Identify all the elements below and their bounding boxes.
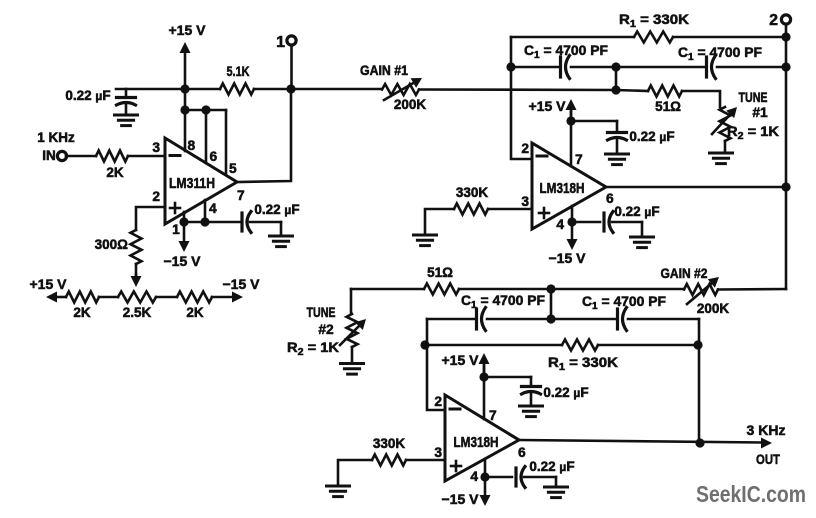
svg-text:2K: 2K	[186, 305, 204, 320]
svg-text:330K: 330K	[373, 436, 406, 451]
svg-text:SeekIC.com: SeekIC.com	[696, 481, 806, 507]
svg-text:+15 V: +15 V	[442, 352, 480, 368]
svg-text:4: 4	[556, 217, 564, 232]
svg-text:GAIN #1: GAIN #1	[360, 63, 408, 78]
svg-text:−15 V: −15 V	[549, 250, 587, 266]
svg-text:4: 4	[209, 201, 217, 216]
svg-text:51Ω: 51Ω	[655, 99, 681, 114]
svg-text:2.5K: 2.5K	[123, 305, 152, 320]
svg-text:2: 2	[521, 141, 529, 156]
svg-text:0.22 µF: 0.22 µF	[614, 204, 659, 219]
svg-text:5: 5	[229, 161, 237, 176]
svg-text:1: 1	[276, 34, 285, 51]
svg-text:2K: 2K	[73, 305, 91, 320]
svg-text:GAIN #2: GAIN #2	[661, 266, 708, 281]
svg-text:2: 2	[152, 189, 160, 204]
svg-text:5.1K: 5.1K	[227, 64, 250, 79]
svg-text:−15 V: −15 V	[442, 491, 480, 507]
svg-text:2: 2	[434, 394, 442, 409]
svg-text:+15 V: +15 V	[30, 276, 68, 292]
svg-text:6: 6	[518, 445, 526, 460]
svg-text:0.22 µF: 0.22 µF	[629, 129, 674, 144]
svg-text:3: 3	[521, 194, 529, 209]
svg-text:0.22 µF: 0.22 µF	[65, 88, 110, 103]
svg-text:+15 V: +15 V	[169, 22, 207, 38]
svg-text:−15 V: −15 V	[223, 276, 261, 292]
svg-text:1 KHz: 1 KHz	[37, 130, 75, 145]
svg-text:−15 V: −15 V	[164, 253, 202, 269]
svg-text:3 KHz: 3 KHz	[747, 422, 786, 438]
svg-text:LM318H: LM318H	[454, 435, 499, 451]
svg-text:6: 6	[606, 191, 614, 206]
svg-text:200K: 200K	[394, 97, 427, 112]
svg-text:3: 3	[152, 140, 160, 155]
svg-text:6: 6	[210, 149, 218, 164]
svg-text:2: 2	[769, 12, 778, 29]
svg-text:0.22 µF: 0.22 µF	[543, 385, 588, 400]
svg-text:7: 7	[237, 188, 245, 203]
svg-text:330K: 330K	[456, 185, 489, 200]
svg-text:1: 1	[172, 222, 180, 237]
svg-text:7: 7	[575, 152, 583, 167]
svg-text:3: 3	[434, 445, 442, 460]
svg-text:#2: #2	[318, 322, 334, 337]
svg-text:0.22 µF: 0.22 µF	[529, 459, 574, 474]
svg-text:OUT: OUT	[756, 451, 780, 467]
svg-text:LM318H: LM318H	[540, 181, 585, 197]
svg-text:LM311H: LM311H	[169, 176, 215, 192]
svg-text:#1: #1	[752, 105, 768, 120]
svg-text:TUNE: TUNE	[739, 90, 768, 105]
svg-text:7: 7	[489, 408, 497, 423]
svg-text:4: 4	[470, 469, 478, 484]
svg-text:200K: 200K	[697, 301, 730, 316]
svg-text:IN: IN	[42, 148, 56, 163]
svg-text:2K: 2K	[106, 165, 124, 180]
svg-text:+15 V: +15 V	[529, 98, 567, 114]
svg-text:0.22 µF: 0.22 µF	[254, 202, 299, 217]
svg-text:51Ω: 51Ω	[427, 265, 453, 280]
svg-text:8: 8	[188, 138, 196, 153]
svg-text:300Ω: 300Ω	[95, 237, 129, 252]
svg-text:TUNE: TUNE	[307, 305, 336, 320]
